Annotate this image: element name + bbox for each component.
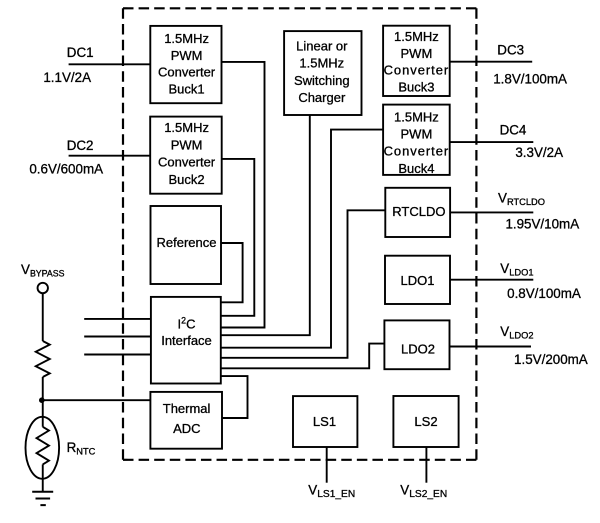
svg-text:PWM: PWM [171, 137, 203, 152]
LDO1 box [385, 256, 450, 304]
wire VBYPASS terminal to resistor [42, 294, 44, 341]
wire Buck2 output to I2C [221, 159, 255, 316]
svg-text:1.5MHz: 1.5MHz [164, 31, 209, 46]
wire Reference to I2C [221, 243, 243, 302]
node junction dot [39, 397, 45, 403]
svg-text:Linear or: Linear or [296, 39, 348, 54]
wire Charger to I2C [221, 115, 310, 335]
wire resistor to NTC node [42, 377, 44, 417]
wire RTCLDO output [450, 211, 533, 213]
svg-text:PWM: PWM [401, 127, 433, 142]
LS2 box [393, 396, 458, 447]
wire DC4 output [450, 141, 534, 143]
Charger box [284, 31, 361, 115]
wire LS1 enable [326, 447, 328, 483]
svg-text:Reference: Reference [157, 235, 217, 250]
wire LDO2 to I2C [221, 344, 385, 369]
svg-text:ADC: ADC [173, 421, 200, 436]
svg-text:DC4: DC4 [500, 122, 527, 137]
wire node to Thermal ADC input [42, 399, 151, 401]
dashed IC boundary left [122, 8, 124, 460]
wire DC3 output [450, 61, 533, 63]
svg-text:LDO1: LDO1 [401, 273, 435, 288]
svg-text:Buck2: Buck2 [169, 172, 205, 187]
wire I2C to Thermal ADC [221, 376, 248, 418]
LDO2 box [384, 320, 449, 369]
wire I2C left stub 2 [84, 336, 151, 338]
svg-text:PWM: PWM [401, 46, 433, 61]
wire LS2 enable [425, 447, 427, 483]
wire LDO1 output [450, 279, 533, 281]
svg-text:Buck1: Buck1 [169, 81, 205, 96]
converter Buck2 box [150, 117, 222, 194]
svg-text:Converter: Converter [158, 155, 216, 170]
I2C Interface box [151, 297, 221, 384]
svg-text:RTCLDO: RTCLDO [392, 204, 445, 219]
dashed IC boundary top [123, 7, 476, 9]
svg-text:1.5MHz: 1.5MHz [394, 110, 439, 125]
svg-text:Charger: Charger [298, 90, 346, 105]
thermistor RNTC zigzag [37, 427, 49, 465]
svg-text:DC2: DC2 [67, 138, 94, 153]
svg-text:1.95V/10mA: 1.95V/10mA [505, 217, 579, 232]
LS1 box [293, 396, 357, 447]
svg-text:Converter: Converter [384, 144, 450, 159]
dashed IC boundary bottom [123, 459, 476, 461]
svg-text:1.5V/200mA: 1.5V/200mA [514, 352, 588, 367]
converter Buck1 box [150, 26, 221, 103]
ground symbol [32, 492, 53, 505]
wire LDO2 output [450, 346, 532, 348]
svg-text:1.5MHz: 1.5MHz [164, 120, 209, 135]
svg-text:1.5MHz: 1.5MHz [299, 56, 344, 71]
svg-text:1.8V/100mA: 1.8V/100mA [493, 72, 567, 87]
RTCLDO box [385, 188, 450, 237]
svg-text:PWM: PWM [171, 48, 203, 63]
svg-text:LS1: LS1 [313, 414, 336, 429]
converter Buck4 box [383, 105, 450, 175]
svg-text:3.3V/2A: 3.3V/2A [515, 145, 563, 160]
svg-text:Buck4: Buck4 [398, 161, 434, 176]
svg-text:I2C: I2C [178, 315, 196, 331]
Reference box [151, 206, 222, 284]
wire NTC to ground [42, 479, 44, 492]
resistor divider zigzag [36, 341, 50, 377]
thermistor RNTC ellipse [26, 417, 60, 479]
svg-text:DC3: DC3 [497, 43, 524, 58]
wire I2C left stub 3 [84, 354, 151, 356]
Thermal ADC box [150, 392, 222, 449]
VBYPASS terminal circle [38, 283, 48, 293]
svg-text:0.8V/100mA: 0.8V/100mA [507, 286, 581, 301]
svg-text:1.1V/2A: 1.1V/2A [43, 70, 91, 85]
svg-text:Converter: Converter [158, 65, 216, 80]
svg-text:LDO2: LDO2 [401, 341, 435, 356]
wire inside NTC bottom [42, 464, 44, 478]
svg-text:1.5MHz: 1.5MHz [394, 29, 439, 44]
wire Buck1 output to I2C [221, 62, 265, 328]
svg-text:Buck3: Buck3 [398, 79, 434, 94]
dashed IC boundary right [475, 8, 477, 460]
wire inside NTC top [42, 417, 44, 427]
svg-text:Interface: Interface [161, 333, 212, 348]
svg-text:Thermal: Thermal [163, 401, 211, 416]
wire RTCLDO to I2C [221, 210, 385, 357]
wire DC1 input [69, 63, 151, 65]
wire DC2 input [69, 155, 151, 157]
wire I2C left stub 1 [84, 318, 151, 320]
svg-text:0.6V/600mA: 0.6V/600mA [29, 161, 103, 176]
svg-text:LS2: LS2 [414, 414, 437, 429]
wire Buck4 to I2C [221, 130, 383, 348]
converter Buck3 box [383, 26, 450, 96]
svg-text:Switching: Switching [294, 73, 350, 88]
svg-text:Converter: Converter [384, 63, 450, 78]
svg-text:DC1: DC1 [67, 45, 94, 60]
